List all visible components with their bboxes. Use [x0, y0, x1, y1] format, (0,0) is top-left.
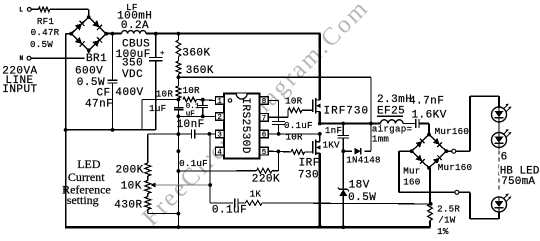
- inductor L2 2.3mH: [381, 120, 404, 124]
- svg-text:2.5R: 2.5R: [437, 203, 460, 214]
- svg-text:730: 730: [298, 169, 319, 181]
- svg-text:160: 160: [403, 176, 420, 187]
- wire 10Rv top: [177, 77, 179, 86]
- wire VS column: [370, 77, 372, 151]
- wire DC- link: [66, 129, 156, 131]
- LED D1: [492, 107, 507, 122]
- diode Mur160 D2: [433, 138, 440, 145]
- wire 1K to sense: [262, 203, 431, 204]
- resistor 360K upper: [176, 40, 181, 57]
- svg-text:360K: 360K: [186, 65, 214, 77]
- svg-text:Mur160: Mur160: [435, 126, 470, 137]
- wire LED feed: [498, 96, 500, 107]
- node Q2 rail: [318, 225, 322, 229]
- svg-text:0.2A: 0.2A: [121, 20, 149, 32]
- diode 1N4148: [343, 150, 352, 152]
- label 220K: [251, 174, 280, 183]
- pin 8 box: [260, 97, 269, 105]
- wire DC+ rail to corner: [146, 32, 320, 34]
- wire LED2 tail: [498, 148, 500, 150]
- node Mur corners: [427, 133, 431, 137]
- wire LED dashed: [498, 151, 500, 192]
- wire gate lower: [305, 151, 313, 153]
- svg-text:3: 3: [217, 132, 222, 140]
- label BR1: [85, 53, 113, 63]
- svg-text:430R: 430R: [114, 200, 142, 212]
- wire pin2: [178, 115, 215, 117]
- svg-text:10R: 10R: [286, 131, 304, 142]
- svg-text:2.3mH: 2.3mH: [377, 94, 412, 106]
- diode BR1 D1: [75, 23, 82, 30]
- node BR1 corners: [87, 15, 91, 19]
- svg-text:6: 6: [262, 132, 267, 140]
- wire 430R to gnd bus: [147, 210, 149, 214]
- svg-text:1%: 1%: [437, 226, 449, 237]
- wire cap to Mur bridge: [419, 123, 429, 125]
- resistor 360K lower: [176, 61, 181, 74]
- bridge Mur160 frame: [412, 135, 447, 168]
- wire CBUS upper lead: [155, 34, 157, 58]
- diode Mur160 D3: [416, 155, 423, 162]
- svg-text:/1W: /1W: [438, 215, 456, 226]
- wire LED1-LED2: [498, 122, 500, 133]
- label Mur160 right: [437, 163, 473, 171]
- svg-text:10K: 10K: [121, 180, 142, 192]
- wire CBUS lower lead: [155, 61, 157, 130]
- label Mur160 top: [434, 127, 470, 135]
- resistor 2.5R: [428, 204, 433, 221]
- svg-text:5: 5: [262, 149, 267, 157]
- wire 10K to 430R: [147, 194, 149, 197]
- pin 5 box: [260, 147, 269, 155]
- wire connector to LED top: [456, 150, 470, 152]
- diode BR1 D4: [92, 40, 99, 47]
- terminal N: [27, 56, 31, 60]
- resistor 220K: [257, 168, 273, 173]
- wire supply to VS column: [178, 76, 371, 78]
- capacitor 0.1uF bootstrap: [272, 120, 285, 122]
- wire DC+ rail: [106, 32, 121, 34]
- svg-text:1uF: 1uF: [149, 103, 166, 114]
- label 1KV: [322, 140, 343, 148]
- svg-text:750mA: 750mA: [501, 176, 535, 188]
- node 1nF tap: [341, 122, 345, 126]
- wire pin5 to 220K: [277, 151, 279, 170]
- node pin2 left: [177, 114, 181, 118]
- label 360K lower: [185, 65, 214, 74]
- wire Q2 source down: [319, 153, 321, 226]
- wire gate upper: [302, 109, 313, 111]
- op-amp U1 IRS2530D body: [224, 94, 260, 159]
- resistor 10K pot: [145, 181, 151, 194]
- node pin5 branch: [277, 150, 281, 154]
- svg-text:0.5W: 0.5W: [30, 39, 53, 50]
- capacitor CF: [108, 79, 118, 81]
- pin 6 box: [260, 130, 269, 138]
- node pin2 branch: [201, 115, 205, 119]
- svg-text:1N4148: 1N4148: [346, 155, 381, 166]
- label Mur left: [402, 166, 421, 174]
- node pin3 branch: [208, 132, 212, 136]
- svg-text:EF25: EF25: [377, 106, 405, 118]
- capacitor 0.1uF feedback: [234, 199, 236, 208]
- diode BR1 D2: [92, 20, 99, 27]
- resistor 1K: [246, 201, 263, 206]
- pin 1 box: [216, 97, 225, 105]
- svg-text:RF1: RF1: [37, 16, 55, 27]
- node bootstrap to pin6: [277, 132, 281, 136]
- svg-text:360K: 360K: [182, 48, 210, 60]
- svg-text:10R: 10R: [285, 96, 303, 107]
- svg-text:1mm: 1mm: [372, 133, 390, 144]
- capacitor 1uF: [177, 100, 179, 108]
- diode Mur160 D4: [433, 158, 440, 165]
- wire zener branch: [342, 151, 344, 189]
- LED D3: [492, 197, 507, 212]
- inductor core line: [377, 115, 403, 117]
- bridge BR1 frame: [71, 17, 106, 50]
- node connector return: [455, 190, 459, 194]
- wire feedback corner: [210, 202, 233, 204]
- svg-text:N: N: [20, 55, 24, 62]
- wire DIM feedback vertical: [209, 134, 211, 203]
- pot wiper arrow: [150, 183, 155, 188]
- node connector feed: [452, 149, 456, 153]
- svg-text:1.6KV: 1.6KV: [412, 109, 447, 121]
- resistor RF1: [38, 7, 49, 12]
- svg-text:1nF: 1nF: [325, 125, 342, 136]
- node zener rail: [341, 225, 345, 229]
- svg-text:200K: 200K: [116, 164, 144, 176]
- wire 220K to gnd: [178, 170, 256, 172]
- wire pin7 HO: [268, 116, 288, 118]
- wire output row: [320, 122, 381, 124]
- transistor Q1 IRF730: [312, 100, 314, 113]
- svg-text:2: 2: [217, 114, 222, 122]
- capacitor CBUS: [149, 57, 162, 59]
- svg-text:IRF730: IRF730: [324, 106, 370, 118]
- label 750mA: [501, 176, 539, 185]
- svg-text:0.1uF: 0.1uF: [179, 158, 208, 169]
- label 0.1uF pin4: [180, 158, 210, 167]
- wire CF lower lead: [112, 83, 114, 130]
- node CF tap: [111, 32, 115, 36]
- wire Q2 drain: [319, 134, 321, 142]
- svg-text:350: 350: [122, 57, 143, 69]
- svg-text:LED: LED: [77, 157, 101, 171]
- label 6: [500, 152, 509, 161]
- node sense top: [429, 202, 433, 206]
- resistor 10R lower gate: [291, 150, 305, 155]
- resistor 430R: [145, 197, 151, 210]
- node gnd 10nF: [177, 132, 181, 136]
- svg-text:8: 8: [262, 98, 267, 106]
- wire mid ground bus: [177, 116, 179, 227]
- LED D2: [492, 133, 507, 148]
- svg-text:10R: 10R: [183, 85, 201, 96]
- label 160 left: [402, 177, 421, 185]
- node gnd rail: [177, 225, 181, 229]
- svg-text:VDC: VDC: [122, 69, 143, 81]
- wire DC- bus left: [66, 33, 72, 35]
- node VS supply join: [369, 122, 373, 126]
- diode BR1 D3: [75, 37, 82, 44]
- wire return to LED bottom: [459, 191, 470, 193]
- wire chain top: [148, 133, 179, 135]
- svg-text:1KV: 1KV: [323, 139, 341, 150]
- transistor Q2 IRF730: [312, 141, 314, 154]
- svg-text:400V: 400V: [115, 87, 143, 99]
- svg-text:Mur: Mur: [403, 166, 420, 177]
- wire Mur left to return: [399, 150, 412, 152]
- svg-text:220K: 220K: [252, 173, 280, 185]
- wire coil to cap: [403, 123, 416, 125]
- wire bottom rail: [65, 226, 431, 228]
- diode zener 18V: [339, 190, 347, 197]
- svg-text:BR1: BR1: [86, 53, 107, 65]
- svg-text:0.1uF: 0.1uF: [284, 120, 313, 131]
- node half-bridge: [318, 122, 322, 126]
- svg-text:uF: uF: [186, 111, 195, 119]
- node gnd pin4cap: [177, 149, 181, 153]
- wire 200K to 10K: [147, 176, 149, 181]
- svg-text:47nF: 47nF: [85, 98, 113, 110]
- node pin1 branch: [201, 98, 205, 102]
- wire to 360K1: [177, 34, 179, 40]
- wire 10Rh to pin1: [197, 100, 216, 101]
- pin 2 box: [216, 113, 225, 121]
- wire RF1 to bridge top: [50, 8, 89, 10]
- wire VCC jog: [142, 99, 179, 101]
- capacitor 10nF: [191, 129, 193, 138]
- resistor 10R upper gate: [288, 108, 302, 113]
- label HB LED: [499, 165, 540, 174]
- svg-text:1K: 1K: [250, 189, 262, 200]
- resistor 10R horizontal: [183, 97, 197, 102]
- node 360K tap: [177, 32, 181, 36]
- svg-text:IRF: IRF: [299, 157, 320, 169]
- svg-text:Mur160: Mur160: [438, 162, 473, 173]
- svg-text:10R: 10R: [156, 88, 174, 99]
- wire CF upper lead: [112, 34, 114, 80]
- resistor 10R vertical: [176, 86, 181, 98]
- svg-text:IRS2530D: IRS2530D: [239, 98, 251, 154]
- svg-text:INPUT: INPUT: [2, 84, 37, 96]
- pin 3 box: [216, 130, 225, 138]
- node gnd 220K: [177, 169, 181, 173]
- svg-text:0.5W: 0.5W: [348, 192, 376, 204]
- node wiper tap: [208, 183, 212, 187]
- svg-text:0.1uF: 0.1uF: [212, 204, 247, 216]
- resistor 200K: [145, 163, 151, 176]
- node VCC: [177, 98, 181, 102]
- wire pin5 LO: [268, 150, 291, 153]
- svg-text:10nF: 10nF: [177, 119, 205, 131]
- inductor LF: [122, 31, 147, 34]
- wire N to bridge bottom: [31, 57, 89, 59]
- node gnd 430R: [177, 212, 181, 216]
- svg-text:4: 4: [217, 149, 222, 157]
- label 1nF: [324, 126, 341, 134]
- svg-text:1: 1: [217, 98, 222, 106]
- svg-text:setting: setting: [67, 193, 99, 207]
- svg-text:L: L: [19, 6, 23, 13]
- capacitor 0.1uF vcc: [202, 100, 204, 106]
- pin 4 box: [216, 147, 225, 155]
- svg-text:0.47R: 0.47R: [31, 27, 60, 38]
- wire 10nF left lead: [178, 133, 191, 135]
- wire 360K1 to 360K2: [177, 57, 179, 62]
- svg-text:+: +: [160, 50, 165, 58]
- capacitor 4.7nF: [415, 119, 417, 128]
- diode Mur160 D1: [416, 141, 423, 148]
- pin 7 box: [260, 114, 269, 122]
- svg-text:6: 6: [501, 151, 508, 163]
- wire 2.5R to rail: [429, 221, 431, 228]
- svg-text:7: 7: [262, 115, 267, 123]
- node DC- link junctions: [64, 128, 68, 132]
- wire zener to rail: [342, 196, 344, 227]
- svg-text:18V: 18V: [349, 180, 370, 192]
- svg-text:600V: 600V: [75, 65, 103, 77]
- wire Q1 source to node: [319, 112, 321, 124]
- wire Mur bottom to sense: [429, 168, 431, 204]
- terminal L: [27, 7, 31, 11]
- wire Mur right to connector: [446, 150, 452, 152]
- wire pin6 VS: [268, 133, 320, 135]
- svg-text:4.7nF: 4.7nF: [409, 96, 444, 108]
- wire pin8 VB: [268, 100, 278, 102]
- node CBUS tap: [154, 32, 158, 36]
- node VS pin6: [318, 132, 322, 136]
- wire L to RF1: [31, 8, 38, 10]
- capacitor 1nF: [342, 124, 344, 136]
- node VCC feed: [177, 75, 181, 79]
- wire chain vertical: [147, 134, 149, 163]
- node snubber: [341, 149, 345, 153]
- wire 360K to node: [177, 74, 179, 77]
